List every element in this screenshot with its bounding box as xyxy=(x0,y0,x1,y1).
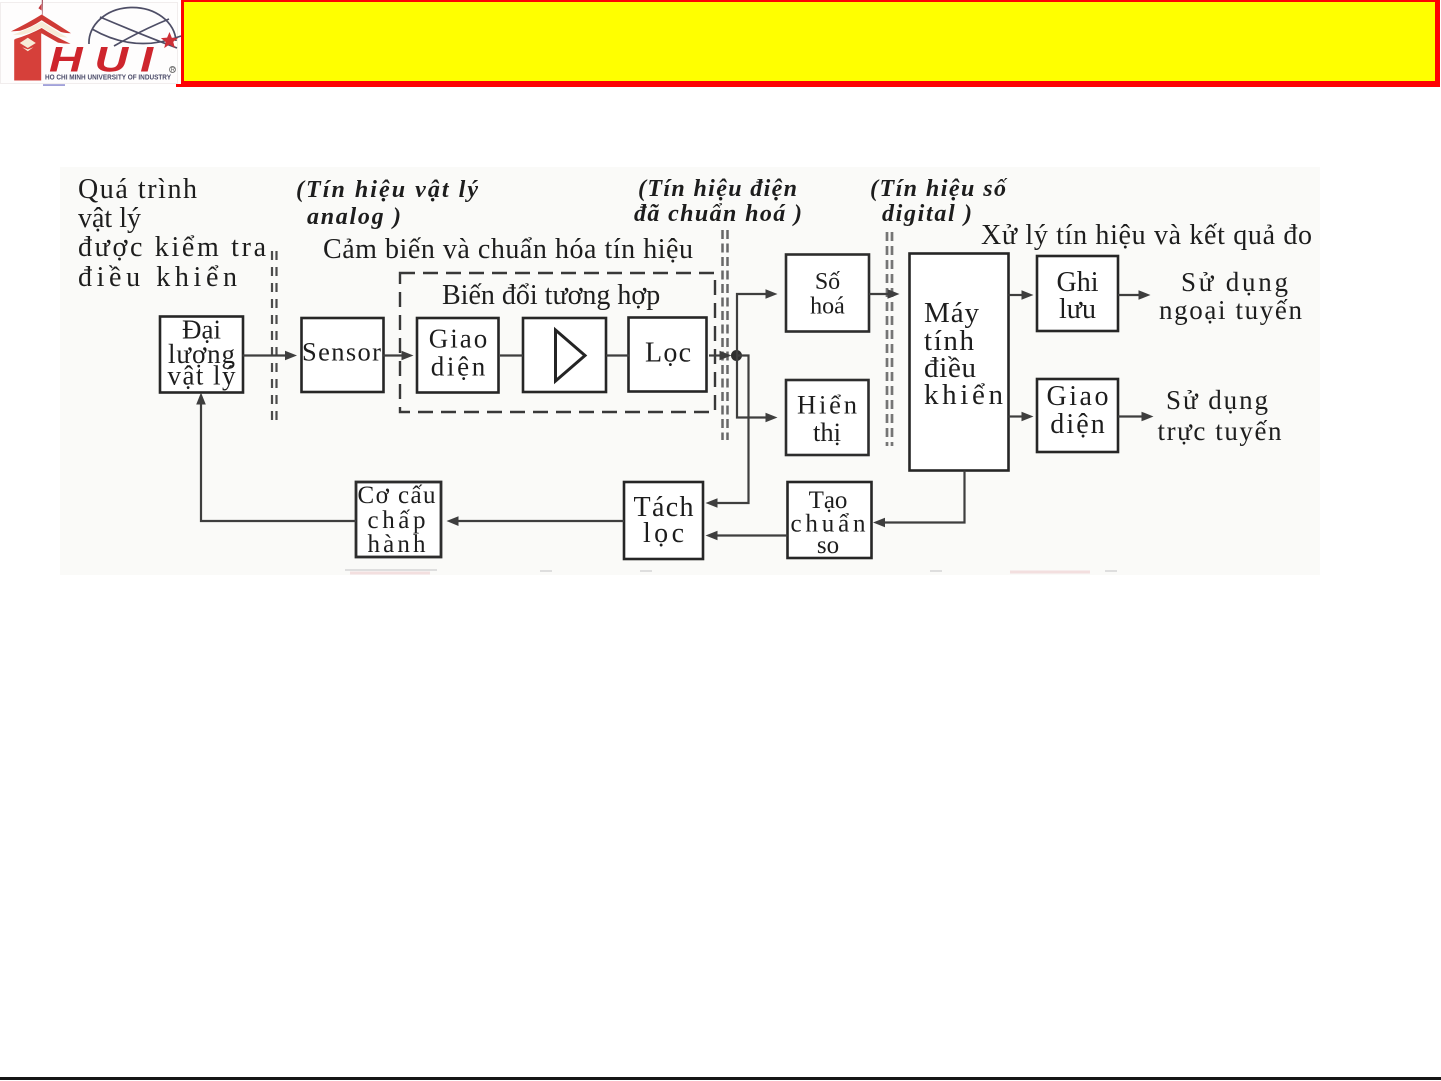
faint caption remnants xyxy=(345,570,1117,571)
svg-text:trực tuyến: trực tuyến xyxy=(1158,416,1283,446)
svg-text:lọc: lọc xyxy=(643,518,684,549)
wire So hoa to May tinh xyxy=(869,289,900,299)
svg-text:diện: diện xyxy=(431,352,486,382)
svg-text:Quá trình: Quá trình xyxy=(78,174,197,205)
svg-text:Biến đổi tương hợp: Biến đổi tương hợp xyxy=(442,280,660,311)
label: Su dung truc tuyen xyxy=(1158,385,1283,446)
box Dai luong vat ly xyxy=(160,315,243,393)
box Hien thi xyxy=(786,380,869,455)
tower body xyxy=(14,31,41,81)
svg-text:digital ): digital ) xyxy=(882,201,972,227)
globe arcs xyxy=(89,7,181,48)
box May tinh dieu khien xyxy=(910,254,1009,471)
svg-text:(Tín hiệu vật lý: (Tín hiệu vật lý xyxy=(296,177,478,203)
tower roof chevron xyxy=(11,15,71,34)
logo frame xyxy=(1,3,178,84)
label: (Tin hieu vat ly analog) xyxy=(296,177,478,230)
dashed line digital boundary xyxy=(887,232,892,446)
svg-text:Cảm biến và chuẩn hóa tín hiệu: Cảm biến và chuẩn hóa tín hiệu xyxy=(323,234,693,265)
wire Sensor to Giao dien xyxy=(383,351,414,361)
svg-text:(Tín hiệu điện: (Tín hiệu điện xyxy=(638,176,797,202)
svg-text:được kiểm tra: được kiểm tra xyxy=(78,232,267,263)
box amplifier xyxy=(523,318,606,392)
svg-text:hoá: hoá xyxy=(810,294,845,320)
box Ghi luu xyxy=(1037,256,1118,331)
svg-text:Xử lý tín hiệu và kết quả đo: Xử lý tín hiệu và kết quả đo xyxy=(981,220,1312,251)
roof lower red wing xyxy=(14,28,70,44)
wire amp to Loc xyxy=(606,354,629,356)
svg-text:Sensor: Sensor xyxy=(302,337,381,367)
svg-text:đã chuẩn hoá ): đã chuẩn hoá ) xyxy=(634,201,802,227)
label: Su dung ngoai tuyen xyxy=(1159,267,1303,325)
wire Tach loc to Co cau xyxy=(447,516,625,526)
dashed line electric boundary xyxy=(723,230,728,440)
box Co cau chap hanh xyxy=(356,482,441,558)
registered mark xyxy=(170,67,176,73)
bottom rule xyxy=(0,1077,1441,1080)
svg-text:Lọc: Lọc xyxy=(645,338,691,369)
lotus emblem xyxy=(20,38,36,48)
svg-text:so: so xyxy=(817,532,839,559)
wire Tao chuan so to Tach loc xyxy=(706,531,788,541)
yellow banner xyxy=(181,0,1440,87)
banner bottom-left red tab xyxy=(176,84,206,87)
wire Giao dien 2 out xyxy=(1118,412,1154,422)
box So hoa xyxy=(786,255,869,332)
wire Dai luong to Sensor xyxy=(243,351,298,361)
svg-text:lưu: lưu xyxy=(1059,294,1096,325)
svg-text:(Tín hiệu số: (Tín hiệu số xyxy=(870,176,1008,202)
label: (Tin hieu so digital) xyxy=(870,176,1008,227)
wire Ghi luu out xyxy=(1118,290,1151,300)
box Tach loc xyxy=(624,482,703,559)
diagram image background xyxy=(60,167,1320,575)
svg-text:diện: diện xyxy=(1050,409,1105,440)
label: Qua trinh vat ly duoc kiem tra dieu khien xyxy=(78,174,267,293)
box Sensor xyxy=(302,318,384,392)
dashed box Bien doi tuong hop xyxy=(400,273,715,412)
roof cream stripe xyxy=(13,22,68,38)
red star xyxy=(161,32,178,48)
wire May tinh to Giao dien 2 xyxy=(1009,412,1034,422)
svg-text:điều khiển: điều khiển xyxy=(78,262,237,293)
wire Co cau feedback to Dai luong xyxy=(196,393,356,522)
svg-text:hành: hành xyxy=(368,531,427,558)
box Giao dien 2 xyxy=(1037,379,1118,452)
wire Giao dien to amp xyxy=(500,354,523,356)
dashed line analog boundary xyxy=(272,251,277,427)
svg-text:vật lý: vật lý xyxy=(168,361,237,391)
wire junction down to Tach loc xyxy=(706,356,749,508)
svg-text:analog ): analog ) xyxy=(307,204,401,230)
junction node xyxy=(731,350,742,361)
svg-text:thị: thị xyxy=(813,417,841,447)
tower spire xyxy=(42,0,43,19)
wire May tinh to Ghi luu xyxy=(1009,290,1034,300)
svg-text:ngoại tuyến: ngoại tuyến xyxy=(1159,295,1303,325)
svg-text:Số: Số xyxy=(815,269,840,295)
wire junction down to Hien thi xyxy=(737,356,778,423)
wire Loc to junction xyxy=(709,351,732,361)
svg-text:khiển: khiển xyxy=(924,379,1004,411)
wire junction up to So hoa xyxy=(737,289,778,355)
box Giao dien xyxy=(417,318,499,393)
svg-text:vật lý: vật lý xyxy=(78,203,141,234)
blue underline xyxy=(43,84,65,86)
label: (Tin hieu dien da chuan hoa) xyxy=(634,176,802,227)
box Loc xyxy=(629,318,707,392)
HUI logo xyxy=(0,0,200,100)
box Tao chuan so xyxy=(788,482,872,559)
wire May tinh to Tao chuan so xyxy=(873,471,965,528)
